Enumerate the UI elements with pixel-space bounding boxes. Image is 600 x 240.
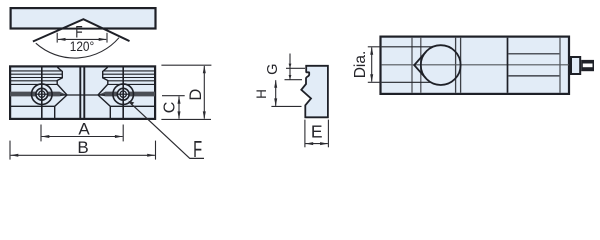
svg-text:B: B: [77, 138, 88, 157]
svg-text:H: H: [254, 89, 269, 99]
svg-text:F: F: [193, 136, 202, 162]
svg-text:G: G: [265, 64, 281, 75]
svg-text:Dia.: Dia.: [352, 51, 369, 79]
svg-text:120°: 120°: [70, 39, 95, 54]
svg-text:A: A: [78, 120, 90, 139]
svg-text:E: E: [311, 122, 323, 142]
svg-text:C: C: [162, 102, 179, 114]
svg-text:D: D: [187, 89, 205, 101]
